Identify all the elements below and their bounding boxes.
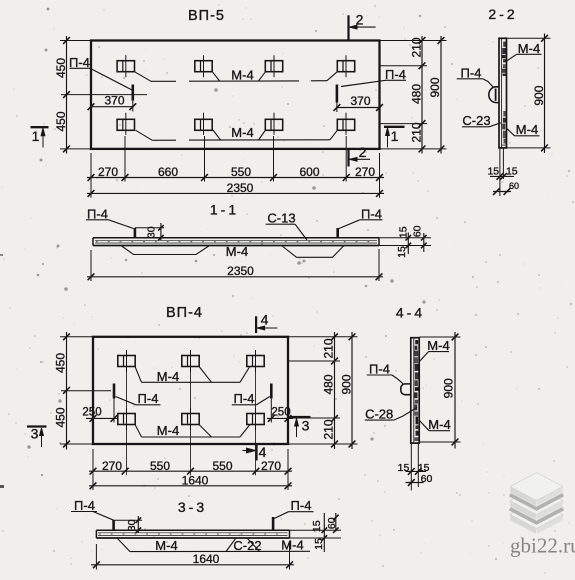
svg-text:270: 270 <box>261 459 281 473</box>
dimension 450-450 left of VP-4 <box>66 332 68 450</box>
plate P-4 left bar VP-4 <box>113 384 116 399</box>
svg-text:15: 15 <box>487 166 499 178</box>
svg-text:480: 480 <box>410 84 424 104</box>
svg-text:210: 210 <box>322 338 336 358</box>
panel cross-section 2-2 <box>499 38 507 148</box>
logo slab middle <box>510 501 537 521</box>
svg-text:М-4: М-4 <box>516 122 538 137</box>
plate P-4 bar left 1-1 <box>134 228 137 238</box>
svg-text:М-4: М-4 <box>428 417 450 432</box>
anchor M-4 symbols VP-5 row 1 <box>117 61 134 72</box>
svg-text:М-4: М-4 <box>157 423 179 438</box>
logo slab middle shadow <box>510 508 563 522</box>
section marker 1 right <box>384 126 405 128</box>
dimension 2350 of 1-1 <box>87 276 383 278</box>
loop P-4 4-4 <box>401 384 412 395</box>
svg-text:С-23: С-23 <box>462 113 490 128</box>
panel cross-section 4-4 <box>411 338 419 443</box>
svg-text:2350: 2350 <box>227 181 254 195</box>
svg-text:210: 210 <box>410 122 424 142</box>
svg-text:С-22: С-22 <box>233 538 261 553</box>
svg-text:270: 270 <box>102 459 122 473</box>
svg-text:П-4: П-4 <box>69 55 90 70</box>
svg-text:2: 2 <box>356 12 364 28</box>
section marker 4 bottom <box>255 444 257 460</box>
svg-text:60: 60 <box>326 517 338 529</box>
leader lines M-4 row 1 <box>135 72 152 82</box>
svg-text:1-1: 1-1 <box>210 202 239 218</box>
dimension 15-60-15 right end 3-3 <box>290 529 342 531</box>
dimension 900 right of VP-5 <box>440 36 442 154</box>
anchor M-4 symbols VP-4 row 1 <box>118 356 135 367</box>
svg-text:900: 900 <box>428 77 442 97</box>
svg-text:1: 1 <box>391 128 399 144</box>
svg-text:М-4: М-4 <box>231 68 253 83</box>
svg-text:480: 480 <box>322 374 336 394</box>
svg-text:250: 250 <box>82 407 101 419</box>
section marker 2 top <box>347 15 349 40</box>
extension lines right of VP-4 <box>288 336 358 338</box>
section marker 3 right <box>290 416 311 418</box>
section marker 2 bottom <box>347 149 349 167</box>
panel slab section 3-3 <box>96 529 289 531</box>
extension lines bottom VP-4 <box>92 449 94 475</box>
dimension 1640 of VP-4 <box>89 485 292 487</box>
svg-text:4: 4 <box>259 444 267 460</box>
svg-text:П-4: П-4 <box>87 206 108 221</box>
section marker 4 top <box>255 316 257 333</box>
anchor centerlines VP-4 <box>126 350 128 475</box>
svg-text:270: 270 <box>98 165 118 179</box>
svg-text:1640: 1640 <box>182 473 209 487</box>
svg-text:М-4: М-4 <box>427 338 449 353</box>
dimension 900 of 4-4 <box>454 332 456 449</box>
svg-text:2-2: 2-2 <box>488 6 517 22</box>
svg-text:660: 660 <box>158 165 178 179</box>
svg-text:370: 370 <box>350 94 370 108</box>
logo slab top <box>510 487 537 507</box>
extension lines right of VP-5 <box>380 40 447 42</box>
svg-text:900: 900 <box>442 378 456 398</box>
anchor trapezoid left 1-1 <box>121 246 210 255</box>
panel VP-5 outline <box>91 41 380 149</box>
dimension 900 right of VP-4 <box>351 332 353 449</box>
leader lines M-4 row 2 <box>136 130 153 140</box>
svg-text:ВП-5: ВП-5 <box>188 8 225 24</box>
anchor bar hatch bottom 2-2 <box>503 111 506 116</box>
svg-text:15: 15 <box>397 226 409 238</box>
svg-text:15: 15 <box>311 520 323 532</box>
section marker 1 left <box>31 126 49 128</box>
svg-text:450: 450 <box>54 407 68 427</box>
dimension 370 left <box>91 106 133 108</box>
dimension 15-60-15 right end 1-1 <box>379 237 431 239</box>
svg-text:3: 3 <box>302 418 310 434</box>
dimension 30 of 1-1 <box>135 227 164 229</box>
svg-text:П-4: П-4 <box>291 498 312 513</box>
svg-text:4: 4 <box>261 312 269 328</box>
svg-text:550: 550 <box>231 165 251 179</box>
svg-text:15: 15 <box>398 462 410 474</box>
svg-text:60: 60 <box>421 473 433 485</box>
loop P-4 2-2 <box>489 87 499 103</box>
svg-text:П-4: П-4 <box>461 65 482 80</box>
svg-text:ВП-4: ВП-4 <box>166 305 203 321</box>
svg-text:М-4: М-4 <box>155 538 177 553</box>
dimension 210-480-210 right of VP-5 <box>421 36 423 154</box>
dimension 2350 of VP-5 <box>87 192 384 194</box>
svg-text:15: 15 <box>396 246 408 258</box>
section marker 3 left <box>27 425 47 427</box>
svg-text:С-28: С-28 <box>365 407 393 422</box>
anchor M-4 symbols VP-5 row 2 <box>117 119 134 130</box>
plate P-4 bar right 3-3 <box>272 517 275 530</box>
svg-text:2350: 2350 <box>227 264 254 278</box>
svg-text:450: 450 <box>54 111 68 131</box>
plate P-4 bar left 3-3 <box>112 520 115 530</box>
anchor trapezoid right 1-1 <box>282 246 345 258</box>
anchor bar hatch 4-4 <box>415 340 418 344</box>
leader lines M-4 row 1 VP-4 <box>135 367 142 383</box>
svg-text:М-4: М-4 <box>518 41 540 56</box>
dimension 15-15-60 bottom 4-4 <box>410 443 412 490</box>
svg-text:450: 450 <box>54 353 68 373</box>
anchor leader lines below 3-3 <box>130 550 310 552</box>
svg-text:3-3: 3-3 <box>178 499 207 515</box>
dimension 250 right VP-4 <box>267 417 293 419</box>
svg-text:П-4: П-4 <box>138 391 159 406</box>
svg-text:60: 60 <box>412 225 424 237</box>
svg-text:2: 2 <box>359 144 367 160</box>
plate P-4 left bar <box>132 85 135 101</box>
svg-text:П-4: П-4 <box>234 391 255 406</box>
svg-text:60: 60 <box>509 181 519 191</box>
panel VP-4 outline <box>93 337 288 444</box>
svg-text:30: 30 <box>146 226 158 238</box>
svg-text:370: 370 <box>104 94 124 108</box>
logo slab bottom <box>510 515 537 535</box>
gbi22.ru watermark logo <box>510 473 575 558</box>
svg-text:П-4: П-4 <box>361 206 382 221</box>
svg-text:210: 210 <box>322 419 336 439</box>
svg-text:450: 450 <box>54 58 68 78</box>
svg-text:М-4: М-4 <box>281 538 303 553</box>
plate P-4 bar right 1-1 <box>336 228 339 238</box>
dimension 210-480-210 right of VP-4 <box>334 332 336 449</box>
dimension 250 left VP-4 <box>86 417 118 419</box>
svg-text:15: 15 <box>506 166 518 178</box>
svg-text:П-4: П-4 <box>74 498 95 513</box>
svg-text:3: 3 <box>31 426 39 442</box>
svg-text:250: 250 <box>271 407 290 419</box>
plate P-4 right bar VP-4 <box>270 384 273 399</box>
anchor M-4 symbols VP-4 row 2 <box>118 414 135 425</box>
svg-text:600: 600 <box>299 165 319 179</box>
svg-text:550: 550 <box>212 459 232 473</box>
panel slab section 1-1 <box>93 237 379 239</box>
svg-text:270: 270 <box>355 165 375 179</box>
dimension chain 270-550-550-270 VP-4 <box>89 470 292 472</box>
svg-text:4-4: 4-4 <box>396 305 425 321</box>
svg-text:900: 900 <box>340 374 354 394</box>
dimension 15-15-60 bottom 2-2 <box>499 148 501 196</box>
svg-text:М-4: М-4 <box>157 369 179 384</box>
svg-text:30: 30 <box>126 519 138 531</box>
dimension 30 of 3-3 <box>114 519 142 521</box>
svg-text:С-13: С-13 <box>267 211 295 226</box>
dimension 1640 of 3-3 <box>91 564 294 566</box>
dimension 450-450 left <box>66 36 68 154</box>
extension line mid left <box>61 94 147 96</box>
svg-text:15: 15 <box>313 538 325 550</box>
svg-text:М-4: М-4 <box>231 125 253 140</box>
extension lines bottom VP-5 <box>90 153 92 182</box>
dimension 900 of 2-2 <box>544 34 546 154</box>
svg-text:П-4: П-4 <box>369 361 390 376</box>
svg-text:550: 550 <box>150 459 170 473</box>
logo slab top shadow <box>510 494 563 508</box>
plate P-4 right bar <box>336 85 339 103</box>
svg-text:М-4: М-4 <box>226 244 248 259</box>
dimension 370 right <box>337 107 380 109</box>
dimension chain 270-660-550-600-270 <box>87 177 384 179</box>
svg-text:1640: 1640 <box>193 552 220 566</box>
svg-text:900: 900 <box>532 85 546 105</box>
leader lines M-4 row 2 VP-4 <box>135 425 142 438</box>
anchor bar hatch top 2-2 <box>503 42 507 47</box>
svg-text:1: 1 <box>32 128 40 144</box>
svg-text:gbi22.ru: gbi22.ru <box>510 534 575 558</box>
